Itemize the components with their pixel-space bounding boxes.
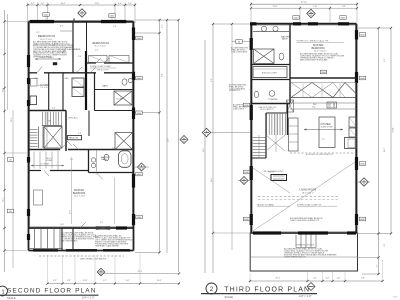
svg-text:LINE OF BALCONY ABOVE: LINE OF BALCONY ABOVE	[80, 258, 107, 261]
svg-text:10'-2": 10'-2"	[157, 280, 162, 282]
svg-text:MATCH EXISTING PROFILE AND: MATCH EXISTING PROFILE AND	[300, 58, 328, 61]
svg-text:AND TRIM DETAILS: AND TRIM DETAILS	[61, 239, 78, 242]
svg-text:27'-10": 27'-10"	[301, 2, 307, 4]
svg-text:6'-6": 6'-6"	[78, 133, 82, 135]
svg-text:GLAZING TYP: GLAZING TYP	[229, 89, 241, 92]
svg-text:BEDROOM #3: BEDROOM #3	[93, 42, 110, 45]
svg-text:1'-10": 1'-10"	[313, 6, 318, 8]
svg-text:BATH: BATH	[103, 85, 109, 88]
svg-text:6'-6": 6'-6"	[52, 108, 56, 110]
svg-text:3'-2": 3'-2"	[53, 280, 57, 282]
svg-text:11'-0": 11'-0"	[95, 3, 100, 5]
svg-text:18'-0" X 13'-2": 18'-0" X 13'-2"	[302, 192, 314, 194]
svg-text:TEMPERED GLASS WHERE: TEMPERED GLASS WHERE	[95, 244, 119, 247]
svg-text:3'-2": 3'-2"	[326, 278, 330, 280]
svg-text:31'-4": 31'-4"	[211, 177, 213, 182]
svg-text:2'-0": 2'-0"	[128, 3, 132, 5]
svg-text:13'-8": 13'-8"	[70, 209, 72, 214]
svg-text:1/4" = 1'-0": 1/4" = 1'-0"	[299, 294, 312, 298]
svg-text:11'-2": 11'-2"	[36, 32, 41, 34]
svg-text:24400: 24400	[393, 296, 398, 298]
svg-text:HALL: HALL	[65, 77, 69, 80]
svg-text:CLAD LOW-E: CLAD LOW-E	[233, 107, 245, 110]
svg-text:12'-2": 12'-2"	[3, 197, 5, 202]
svg-text:AT 5'-0" AFF TYP.: AT 5'-0" AFF TYP.	[261, 108, 275, 111]
svg-text:2'-5": 2'-5"	[384, 243, 386, 247]
svg-text:9'-0": 9'-0"	[162, 73, 164, 77]
svg-text:5'-7": 5'-7"	[103, 280, 107, 282]
svg-text:LIVING ROOM: LIVING ROOM	[300, 189, 317, 192]
svg-text:GAS F.P.: GAS F.P.	[268, 171, 275, 174]
svg-text:34'-10": 34'-10"	[393, 127, 395, 133]
svg-text:5'-0": 5'-0"	[126, 280, 130, 282]
svg-text:SEE A-3.1 TYP.: SEE A-3.1 TYP.	[97, 68, 109, 71]
svg-text:1/4" = 1'-0": 1/4" = 1'-0"	[82, 296, 95, 300]
svg-text:MECH. CH.: MECH. CH.	[69, 138, 79, 140]
svg-text:SCALE: SCALE	[7, 296, 16, 300]
svg-text:GLASS WHERE REQD BY: GLASS WHERE REQD BY	[284, 255, 307, 258]
svg-text:8'-4": 8'-4"	[384, 58, 386, 62]
svg-text:CLAD LOW-E INSUL: CLAD LOW-E INSUL	[231, 50, 248, 53]
svg-text:9'-2" VERIFY: 9'-2" VERIFY	[40, 164, 50, 166]
svg-text:3'-4": 3'-4"	[342, 6, 346, 8]
svg-text:VAULTED CLG AREA: VAULTED CLG AREA	[257, 203, 274, 206]
svg-text:22'-7": 22'-7"	[276, 278, 281, 280]
svg-text:41'-6": 41'-6"	[203, 147, 205, 152]
svg-text:7'-8": 7'-8"	[361, 278, 365, 280]
svg-text:BATH: BATH	[282, 38, 288, 41]
svg-text:10'-4": 10'-4"	[61, 3, 66, 5]
svg-text:4'-0": 4'-0"	[113, 26, 117, 28]
svg-text:THIRD FLOOR PLAN: THIRD FLOOR PLAN	[224, 286, 310, 293]
svg-text:BUILT-IN CLOSET: BUILT-IN CLOSET	[262, 73, 278, 75]
svg-text:2: 2	[210, 286, 214, 293]
svg-text:3'-2": 3'-2"	[337, 278, 341, 280]
svg-text:1: 1	[1, 289, 4, 295]
svg-text:14'-2" X 13'-0": 14'-2" X 13'-0"	[74, 195, 86, 197]
svg-text:4'-0": 4'-0"	[118, 3, 122, 5]
svg-text:23'-4": 23'-4"	[11, 117, 13, 122]
svg-text:7'-6" X 6'-0": 7'-6" X 6'-0"	[40, 87, 50, 89]
svg-text:4'-6": 4'-6"	[78, 56, 82, 58]
svg-text:2'-6": 2'-6"	[377, 264, 379, 268]
svg-text:3'-2": 3'-2"	[41, 3, 45, 5]
svg-text:8'-2": 8'-2"	[211, 78, 213, 82]
svg-text:POWDER: POWDER	[269, 99, 279, 101]
svg-text:SCALE: SCALE	[225, 295, 234, 299]
svg-text:SLOPED CLG AT 5'-0" AFF: SLOPED CLG AT 5'-0" AFF	[90, 65, 111, 68]
svg-text:D/W: D/W	[312, 107, 316, 109]
svg-text:8'-4": 8'-4"	[60, 26, 64, 28]
svg-text:13'-2": 13'-2"	[384, 147, 386, 152]
svg-text:CLAD LOW-E INSUL GLAZING TYP: CLAD LOW-E INSUL GLAZING TYP	[290, 219, 320, 222]
svg-text:ATTIC ACC.: ATTIC ACC.	[69, 117, 79, 120]
svg-text:3'-2": 3'-2"	[31, 3, 35, 5]
svg-text:OPENINGS IN FIELD: OPENINGS IN FIELD	[33, 56, 52, 58]
svg-text:SLOPED CLG - SEE A-3.1 & A-3.2: SLOPED CLG - SEE A-3.1 & A-3.2 TYP.	[297, 40, 330, 43]
svg-text:LINEN: LINEN	[34, 78, 40, 80]
svg-text:21'-8": 21'-8"	[273, 6, 278, 8]
svg-text:2'-4": 2'-4"	[162, 24, 164, 28]
svg-text:3'-2": 3'-2"	[67, 280, 71, 282]
svg-text:BATH: BATH	[102, 158, 108, 161]
svg-text:11'-2" X 10'-0": 11'-2" X 10'-0"	[95, 46, 107, 48]
svg-text:10'-6": 10'-6"	[3, 87, 5, 92]
svg-text:4'-1": 4'-1"	[100, 222, 104, 224]
svg-text:KITCHEN: KITCHEN	[321, 124, 331, 126]
svg-text:SECOND FLOOR PLAN: SECOND FLOOR PLAN	[7, 288, 97, 295]
svg-text:7'-0": 7'-0"	[322, 139, 326, 141]
svg-text:2'-8": 2'-8"	[112, 148, 116, 150]
svg-text:LINEN: LINEN	[47, 160, 53, 162]
svg-text:10'-2": 10'-2"	[60, 224, 65, 226]
svg-text:2'-1": 2'-1"	[95, 50, 99, 52]
svg-text:23'-8": 23'-8"	[168, 137, 170, 142]
svg-text:5'-1": 5'-1"	[70, 159, 74, 161]
svg-text:SLOPED CLG AT 5'-0" AFF TYP: SLOPED CLG AT 5'-0" AFF TYP	[297, 203, 322, 206]
svg-text:14'-0" X 16'-8": 14'-0" X 16'-8"	[314, 51, 326, 53]
svg-text:BEDROOM #2: BEDROOM #2	[38, 34, 56, 38]
svg-text:(OPEN) ROOF DECK: (OPEN) ROOF DECK	[296, 245, 315, 247]
svg-text:5'-2": 5'-2"	[313, 278, 317, 280]
svg-text:13'-0" X 11'-6": 13'-0" X 11'-6"	[40, 39, 53, 41]
svg-text:CLOSET: CLOSET	[116, 99, 124, 101]
svg-text:3'-11": 3'-11"	[83, 280, 88, 282]
